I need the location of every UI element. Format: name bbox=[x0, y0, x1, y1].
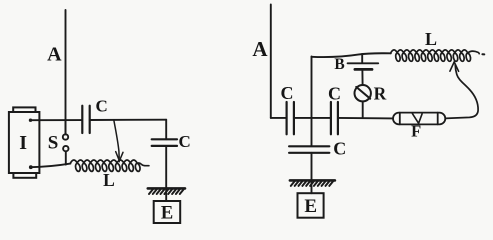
wire F to tap arrow bbox=[445, 64, 478, 118]
induction coil I1 (box) bbox=[9, 107, 40, 177]
svg-text:S: S bbox=[48, 133, 59, 154]
wire coil L2 tail bbox=[482, 53, 484, 55]
svg-text:C: C bbox=[333, 139, 346, 159]
tap arrow onto L1 bbox=[114, 120, 119, 158]
wire I bottom to coil L1 bbox=[31, 164, 71, 168]
svg-text:B: B bbox=[334, 56, 344, 73]
wire corner down to C2 bbox=[165, 120, 167, 140]
spark gap S (lower ball) bbox=[63, 146, 68, 151]
svg-text:E: E bbox=[304, 196, 317, 217]
battery B (short plate) bbox=[355, 68, 372, 71]
battery B (stub) bbox=[361, 54, 363, 63]
spark gap S (lower lead) bbox=[65, 151, 67, 164]
rheostat R (slash) bbox=[356, 87, 370, 99]
terminal dot (I bottom) bbox=[29, 165, 33, 169]
svg-text:I: I bbox=[19, 132, 27, 154]
svg-text:C: C bbox=[328, 84, 341, 104]
wire ground to E box (right) bbox=[311, 186, 313, 193]
capacitor C3 (right, first series cap) bbox=[287, 102, 294, 134]
capacitor C5 (right shunt to earth) bbox=[289, 146, 329, 153]
svg-text:A: A bbox=[47, 44, 62, 66]
wire I top to capacitor C1 bbox=[31, 119, 83, 121]
capacitor C2 (shunt to earth, left circuit) bbox=[152, 139, 177, 146]
filament tube F (end caps) bbox=[400, 113, 438, 125]
wire battery to R bbox=[361, 71, 363, 85]
svg-text:C: C bbox=[95, 97, 107, 116]
earth box E (right) bbox=[298, 193, 324, 218]
spark gap S (upper ball) bbox=[63, 134, 68, 139]
svg-text:C: C bbox=[178, 132, 190, 151]
wire ground to E box bbox=[165, 193, 167, 201]
wire top branch to coil L2 bbox=[312, 53, 391, 57]
wire main to bottom capacitor C5 bbox=[311, 118, 313, 146]
terminal dot (I top) bbox=[29, 119, 32, 122]
wire C5 to ground bbox=[311, 153, 313, 184]
wire antenna to C3 bbox=[271, 117, 287, 119]
tap arrowhead onto L2 bbox=[450, 62, 459, 71]
svg-text:L: L bbox=[425, 29, 437, 49]
svg-text:L: L bbox=[103, 170, 115, 190]
svg-text:E: E bbox=[161, 204, 173, 224]
svg-text:F: F bbox=[411, 121, 421, 140]
wire C3 to C4 bbox=[294, 117, 331, 119]
spark gap S (upper lead) bbox=[65, 120, 67, 134]
filament tube F (V filament) bbox=[412, 113, 422, 123]
rheostat R (circle) bbox=[355, 85, 371, 101]
wire C1 to corner bbox=[90, 119, 167, 121]
svg-text:A: A bbox=[252, 37, 268, 61]
inductor L1 (tuning coil) bbox=[70, 160, 149, 171]
battery B (long plate) bbox=[348, 62, 379, 64]
filament tube F (capsule body) bbox=[393, 113, 445, 125]
wire riser to top branch bbox=[311, 57, 313, 118]
inductor L2 (top coil) bbox=[391, 50, 480, 61]
capacitor C1 (series antenna cap) bbox=[82, 106, 89, 133]
earth box E (left) bbox=[154, 201, 181, 223]
capacitor C4 (right, second series cap) bbox=[331, 102, 338, 134]
svg-text:C: C bbox=[281, 83, 294, 103]
wire C2 to ground bbox=[165, 146, 167, 192]
ground (left earth hatch) bbox=[148, 188, 185, 194]
wire antenna (left circuit) bbox=[65, 10, 67, 134]
svg-text:R: R bbox=[374, 83, 387, 103]
wire R to main wire bbox=[362, 101, 364, 118]
wire antenna (right circuit) bbox=[270, 5, 272, 118]
ground (right earth hatch) bbox=[290, 180, 335, 186]
wire C4 to F bbox=[338, 117, 393, 120]
